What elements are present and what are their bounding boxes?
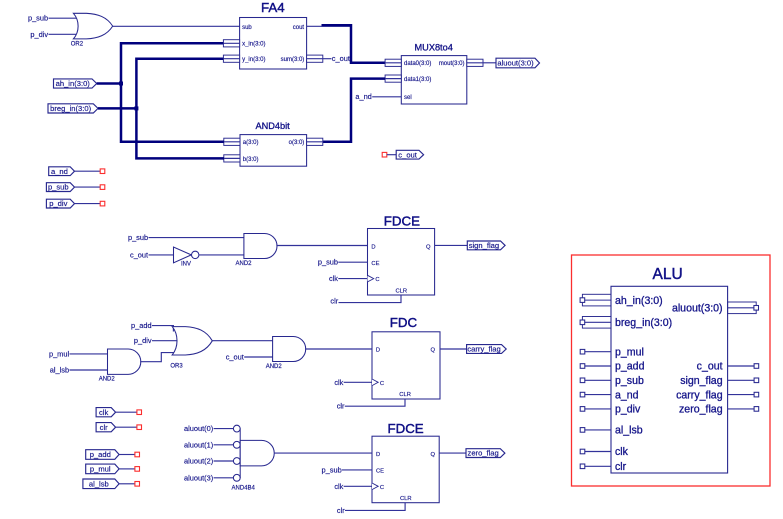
- svg-text:sum(3:0): sum(3:0): [281, 57, 305, 63]
- pin c_out (ALU): [697, 361, 759, 373]
- svg-text:clk: clk: [99, 408, 108, 417]
- wire p_mul stub: [119, 468, 135, 470]
- and-gate AND2 (carry): [266, 337, 306, 371]
- wire AND2 U3 to FDC D: [305, 348, 372, 350]
- wire c_out to INV: [149, 254, 174, 256]
- svg-text:CE: CE: [371, 261, 379, 267]
- and-gate AND2 (mul): [99, 349, 141, 382]
- svg-text:FDCE: FDCE: [384, 213, 420, 228]
- wire to c_out connector: [387, 154, 396, 156]
- net label p_sub (CE sign): [318, 258, 338, 267]
- svg-text:ALU: ALU: [653, 266, 683, 283]
- svg-text:p_div: p_div: [134, 336, 152, 345]
- block U_MUX MUX8to4: [401, 42, 467, 104]
- pin o(3:0) (AND4bit): [289, 138, 323, 146]
- wire Q to zero_flag: [439, 452, 466, 454]
- svg-text:breg_in(3:0): breg_in(3:0): [50, 104, 91, 113]
- svg-text:FA4: FA4: [261, 0, 285, 15]
- svg-text:sign_flag: sign_flag: [469, 241, 499, 250]
- pin clr (ALU): [580, 461, 626, 473]
- net label p_div (OR3 input 2): [134, 336, 152, 345]
- net label aluout(1): [184, 440, 213, 449]
- svg-text:aluout(1): aluout(1): [184, 440, 213, 449]
- net label c_out (sum stub): [332, 54, 350, 63]
- svg-text:aluout(3:0): aluout(3:0): [672, 303, 723, 315]
- svg-text:sub: sub: [242, 25, 252, 31]
- svg-text:D: D: [371, 244, 375, 250]
- flip-flop U_FDCE (zero) FDCE: [372, 421, 439, 503]
- wire cout from FA4: [307, 25, 351, 27]
- wire Q to sign_flag: [435, 244, 468, 246]
- open end marker (al_lsb): [135, 482, 140, 487]
- pin breg_in(3:0) (ALU): [580, 317, 672, 330]
- net label clk (C sign): [329, 274, 338, 283]
- bus ah_in vertical: [121, 43, 224, 142]
- net label clr (CLR sign): [330, 297, 338, 306]
- wire aluout(1) to AND4B4: [214, 444, 234, 446]
- svg-text:C: C: [380, 485, 384, 491]
- svg-text:carry_flag: carry_flag: [676, 389, 723, 401]
- wire al_lsb stub: [119, 483, 135, 485]
- svg-text:CE: CE: [376, 469, 384, 475]
- inverting bubble AND4B4 input 3: [233, 458, 240, 465]
- svg-text:AND4bit: AND4bit: [255, 121, 290, 131]
- flip-flop U_FDC FDC: [372, 315, 440, 399]
- pin Q (FDC): [430, 348, 435, 354]
- pin ah_in(3:0) (ALU): [580, 294, 663, 307]
- pin sum(3:0) (FA4): [281, 55, 323, 63]
- svg-text:y_in(3:0): y_in(3:0): [242, 57, 265, 63]
- net label aluout(3): [184, 473, 213, 482]
- svg-text:a(3:0): a(3:0): [243, 140, 259, 146]
- svg-text:p_sub: p_sub: [322, 465, 342, 474]
- svg-text:x_in(3:0): x_in(3:0): [242, 42, 265, 48]
- pin al_lsb (ALU): [580, 425, 643, 437]
- pin Q (FDCE zero): [430, 452, 435, 458]
- bus breg_in vertical: [136, 59, 224, 159]
- svg-text:aluout(3): aluout(3): [184, 473, 213, 482]
- svg-text:p_add: p_add: [615, 361, 645, 373]
- pin p_sub (ALU): [580, 375, 644, 387]
- svg-text:p_sub: p_sub: [48, 183, 69, 192]
- wire aluout(2) to AND4B4: [214, 460, 234, 462]
- svg-text:p_mul: p_mul: [615, 346, 644, 358]
- input connector clk: [96, 408, 116, 417]
- svg-text:Q: Q: [430, 348, 435, 354]
- svg-text:MUX8to4: MUX8to4: [415, 42, 453, 52]
- svg-text:clr: clr: [337, 506, 345, 515]
- svg-text:b(3:0): b(3:0): [243, 157, 259, 163]
- svg-text:c_out: c_out: [697, 361, 723, 373]
- wire clk to C (sign): [338, 278, 367, 280]
- svg-text:AND4B4: AND4B4: [232, 486, 256, 492]
- wire clk to C (FDC): [344, 381, 372, 383]
- svg-text:a_nd: a_nd: [51, 167, 68, 176]
- input connector al_lsb: [83, 479, 119, 489]
- open end marker (p_mul): [135, 467, 140, 472]
- wire clk stub: [116, 411, 137, 413]
- pin sub (FA4): [242, 25, 252, 31]
- pin sign_flag (ALU): [680, 375, 759, 387]
- inverting bubble AND4B4 input 1: [233, 425, 240, 432]
- output connector c_out: [396, 150, 423, 159]
- pin zero_flag (ALU): [679, 404, 759, 416]
- net label p_sub (CE zero): [322, 465, 342, 474]
- svg-text:clk: clk: [334, 482, 343, 491]
- svg-text:C: C: [380, 381, 384, 387]
- net label c_out (INV input): [130, 250, 148, 259]
- pin CLR (FDCE zero): [400, 496, 412, 502]
- svg-text:data1(3:0): data1(3:0): [404, 77, 431, 83]
- svg-text:sign_flag: sign_flag: [680, 375, 723, 387]
- svg-text:OR2: OR2: [71, 41, 84, 47]
- pin mout(3:0) (MUX8to4): [439, 59, 483, 67]
- net label clr (CLR FDC): [337, 402, 345, 411]
- pin x_in(3:0) (FA4): [223, 40, 265, 48]
- svg-text:FDCE: FDCE: [387, 421, 423, 436]
- wire OR2 output to FA4 sub: [113, 25, 240, 27]
- or-gate OR3: [170, 327, 212, 370]
- svg-text:Q: Q: [426, 244, 431, 250]
- svg-text:aluout(3:0): aluout(3:0): [497, 59, 534, 68]
- input connector p_div: [46, 199, 74, 208]
- svg-text:ah_in(3:0): ah_in(3:0): [615, 295, 663, 307]
- junction ah_in: [119, 82, 123, 86]
- svg-text:clr: clr: [615, 461, 627, 473]
- pin sel (MUX8to4): [404, 95, 412, 101]
- open end marker (p_add): [135, 452, 140, 457]
- net label p_sub (AND2 U1 input): [128, 233, 148, 242]
- inverting bubble AND4B4 input 2: [233, 441, 240, 448]
- svg-text:sel: sel: [404, 95, 412, 101]
- svg-text:p_div: p_div: [30, 30, 48, 39]
- svg-text:clk: clk: [329, 274, 338, 283]
- pin a(3:0) (AND4bit): [224, 138, 259, 146]
- svg-text:aluout(2): aluout(2): [184, 457, 213, 466]
- wire INV to AND2 U1: [199, 254, 244, 256]
- pin C (FDC): [372, 379, 384, 387]
- svg-text:aluout(0): aluout(0): [184, 424, 213, 433]
- net label a_nd (sel): [355, 92, 371, 101]
- wire p_add to OR3: [152, 326, 173, 332]
- input connector p_sub: [46, 183, 74, 192]
- bus to MUX data0: [322, 25, 386, 63]
- svg-text:ah_in(3:0): ah_in(3:0): [56, 79, 91, 88]
- svg-text:D: D: [376, 348, 380, 354]
- open end marker (clk): [137, 410, 142, 415]
- pin D (FDCE sign): [371, 244, 375, 250]
- svg-text:o(3:0): o(3:0): [289, 140, 305, 146]
- input connector clr: [96, 423, 116, 432]
- svg-text:C: C: [375, 277, 379, 283]
- and-gate AND2 (sign): [235, 234, 277, 268]
- wire clr to CLR (sign): [339, 295, 402, 303]
- svg-text:CLR: CLR: [395, 289, 407, 295]
- net label p_sub: [28, 14, 48, 23]
- svg-text:p_div: p_div: [615, 404, 641, 416]
- net label al_lsb (AND2 U2 input 2): [50, 366, 69, 375]
- svg-text:p_div: p_div: [49, 199, 67, 208]
- net label p_add (OR3 input 1): [131, 321, 152, 330]
- output connector aluout(3:0): [496, 58, 540, 68]
- pin D (FDCE zero): [376, 452, 380, 458]
- wire p_div to OR3: [152, 340, 180, 342]
- net label clk (C zero): [334, 482, 343, 491]
- and-gate AND4B4: [232, 429, 275, 492]
- svg-text:AND2: AND2: [235, 261, 252, 267]
- net label clk (C FDC): [334, 378, 343, 387]
- bus AND4bit o to MUX data1: [323, 79, 385, 142]
- bus breg_in to node: [98, 107, 136, 110]
- svg-text:al_lsb: al_lsb: [50, 366, 69, 375]
- svg-text:p_add: p_add: [131, 321, 152, 330]
- pin CE (FDCE sign): [371, 261, 379, 267]
- inverter INV: [174, 247, 199, 267]
- wire p_sub stub: [75, 186, 101, 188]
- svg-text:CLR: CLR: [400, 496, 412, 502]
- block U_AND4bit AND4bit: [240, 121, 307, 166]
- wire sum stub: [323, 58, 332, 60]
- pin p_add (ALU): [580, 361, 644, 373]
- svg-text:INV: INV: [181, 261, 191, 267]
- svg-text:Q: Q: [430, 452, 435, 458]
- svg-text:clk: clk: [615, 446, 629, 458]
- wire a_nd stub: [75, 170, 101, 172]
- open end marker (p_sub): [100, 185, 105, 190]
- wire AND2 U2 to OR3: [140, 353, 176, 362]
- wire aluout(0) to AND4B4: [214, 428, 234, 430]
- svg-text:D: D: [376, 452, 380, 458]
- wire OR3 to AND2 U3: [212, 340, 272, 342]
- svg-text:c_out: c_out: [130, 250, 148, 259]
- input connector p_mul: [86, 464, 119, 474]
- svg-text:breg_in(3:0): breg_in(3:0): [615, 317, 672, 329]
- wire a_nd to sel: [372, 96, 401, 98]
- svg-text:AND2: AND2: [266, 364, 283, 370]
- pin data1(3:0) (MUX8to4): [385, 75, 431, 83]
- wire Q to carry_flag: [440, 348, 467, 350]
- pin C (FDCE zero): [372, 483, 384, 491]
- net label p_div: [30, 30, 48, 39]
- pin data0(3:0) (MUX8to4): [385, 59, 431, 67]
- pin D (FDC): [376, 348, 380, 354]
- wire p_sub to CE (zero): [342, 469, 372, 471]
- input connector ah_in(3:0): [54, 79, 97, 88]
- output connector zero_flag: [466, 449, 505, 458]
- net label c_out (AND2 U3 input 2): [226, 353, 244, 362]
- pin aluout(3:0) (ALU): [672, 302, 759, 315]
- wire p_add stub: [119, 454, 135, 456]
- wire AND2 U1 to FDCE D: [276, 245, 367, 247]
- input connector breg_in(3:0): [48, 104, 98, 113]
- svg-text:zero_flag: zero_flag: [679, 404, 723, 416]
- svg-text:data0(3:0): data0(3:0): [404, 61, 431, 67]
- svg-text:c_out: c_out: [226, 353, 244, 362]
- svg-text:al_lsb: al_lsb: [89, 479, 109, 488]
- open end marker (c_out): [382, 152, 387, 157]
- svg-text:FDC: FDC: [390, 315, 418, 330]
- pin cout (FA4): [293, 25, 305, 31]
- net label p_mul (AND2 U2 input 1): [49, 349, 69, 358]
- inverting bubble AND4B4 input 4: [233, 474, 240, 481]
- svg-text:al_lsb: al_lsb: [615, 425, 643, 437]
- svg-text:cout: cout: [293, 25, 305, 31]
- svg-text:a_nd: a_nd: [355, 92, 371, 101]
- ALU symbol red boundary: [572, 255, 771, 486]
- junction breg_in: [134, 106, 138, 110]
- bus ah_in to node: [97, 82, 121, 85]
- pin p_div (ALU): [580, 404, 641, 416]
- wire al_lsb to AND2 U2: [70, 369, 108, 371]
- open end marker (clr): [137, 425, 142, 430]
- wire aluout(3) to AND4B4: [214, 477, 234, 479]
- or-gate OR2: [71, 13, 113, 47]
- pin b(3:0) (AND4bit): [224, 155, 259, 163]
- wire p_div stub: [75, 203, 101, 205]
- svg-text:clr: clr: [100, 423, 108, 432]
- svg-text:p_sub: p_sub: [615, 375, 644, 387]
- svg-text:p_sub: p_sub: [318, 258, 338, 267]
- wire p_div to OR2: [49, 33, 81, 35]
- svg-text:clr: clr: [330, 297, 338, 306]
- pin carry_flag (ALU): [676, 389, 759, 401]
- svg-text:clk: clk: [334, 378, 343, 387]
- net label aluout(0): [184, 424, 213, 433]
- wire p_sub to CE (sign): [338, 261, 367, 263]
- svg-text:p_mul: p_mul: [49, 349, 69, 358]
- open end marker (p_div): [100, 201, 105, 206]
- svg-text:mout(3:0): mout(3:0): [439, 61, 465, 67]
- input connector p_add: [86, 450, 119, 460]
- svg-text:p_sub: p_sub: [128, 233, 148, 242]
- pin CE (FDCE zero): [376, 469, 384, 475]
- wire p_sub to OR2: [49, 17, 81, 19]
- wire AND4B4 to FDCE D (zero): [274, 452, 372, 454]
- wire mout to aluout: [483, 62, 496, 64]
- flip-flop U_FDCE (sign) FDCE: [368, 213, 435, 295]
- pin y_in(3:0) (FA4): [223, 55, 265, 63]
- pin CLR (FDCE sign): [395, 289, 407, 295]
- wire c_out to AND2 U3: [244, 356, 272, 358]
- output connector carry_flag: [467, 345, 507, 354]
- block U_FA4 FA4: [240, 0, 307, 69]
- block U_ALU ALU: [611, 266, 728, 473]
- open end marker (a_nd): [100, 169, 105, 174]
- net label aluout(2): [184, 457, 213, 466]
- output connector sign_flag: [467, 241, 505, 250]
- pin clk (ALU): [580, 446, 628, 458]
- pin CLR (FDC): [399, 392, 411, 398]
- svg-text:AND2: AND2: [99, 376, 116, 382]
- pin Q (FDCE sign): [426, 244, 431, 250]
- wire p_mul to AND2 U2: [70, 353, 108, 355]
- wire clr to CLR (zero): [345, 503, 405, 511]
- svg-text:OR3: OR3: [170, 364, 183, 370]
- svg-text:zero_flag: zero_flag: [468, 449, 499, 458]
- svg-text:CLR: CLR: [399, 392, 411, 398]
- pin p_mul (ALU): [580, 346, 644, 358]
- input connector a_nd: [49, 167, 75, 176]
- pin C (FDCE sign): [368, 275, 380, 283]
- svg-text:p_sub: p_sub: [28, 14, 48, 23]
- svg-text:clr: clr: [337, 402, 345, 411]
- svg-text:c_out: c_out: [332, 54, 350, 63]
- wire p_sub to AND2 U1: [149, 237, 244, 239]
- wire clk to C (zero): [344, 485, 372, 487]
- net label clr (CLR zero): [337, 506, 345, 515]
- wire clr stub: [116, 426, 137, 428]
- svg-text:p_mul: p_mul: [90, 465, 111, 474]
- svg-text:a_nd: a_nd: [615, 389, 639, 401]
- pin a_nd (ALU): [580, 389, 638, 401]
- svg-text:carry_flag: carry_flag: [467, 345, 500, 354]
- svg-text:c_out: c_out: [398, 150, 417, 159]
- svg-text:p_add: p_add: [90, 450, 111, 459]
- wire clr to CLR (FDC): [345, 399, 405, 406]
